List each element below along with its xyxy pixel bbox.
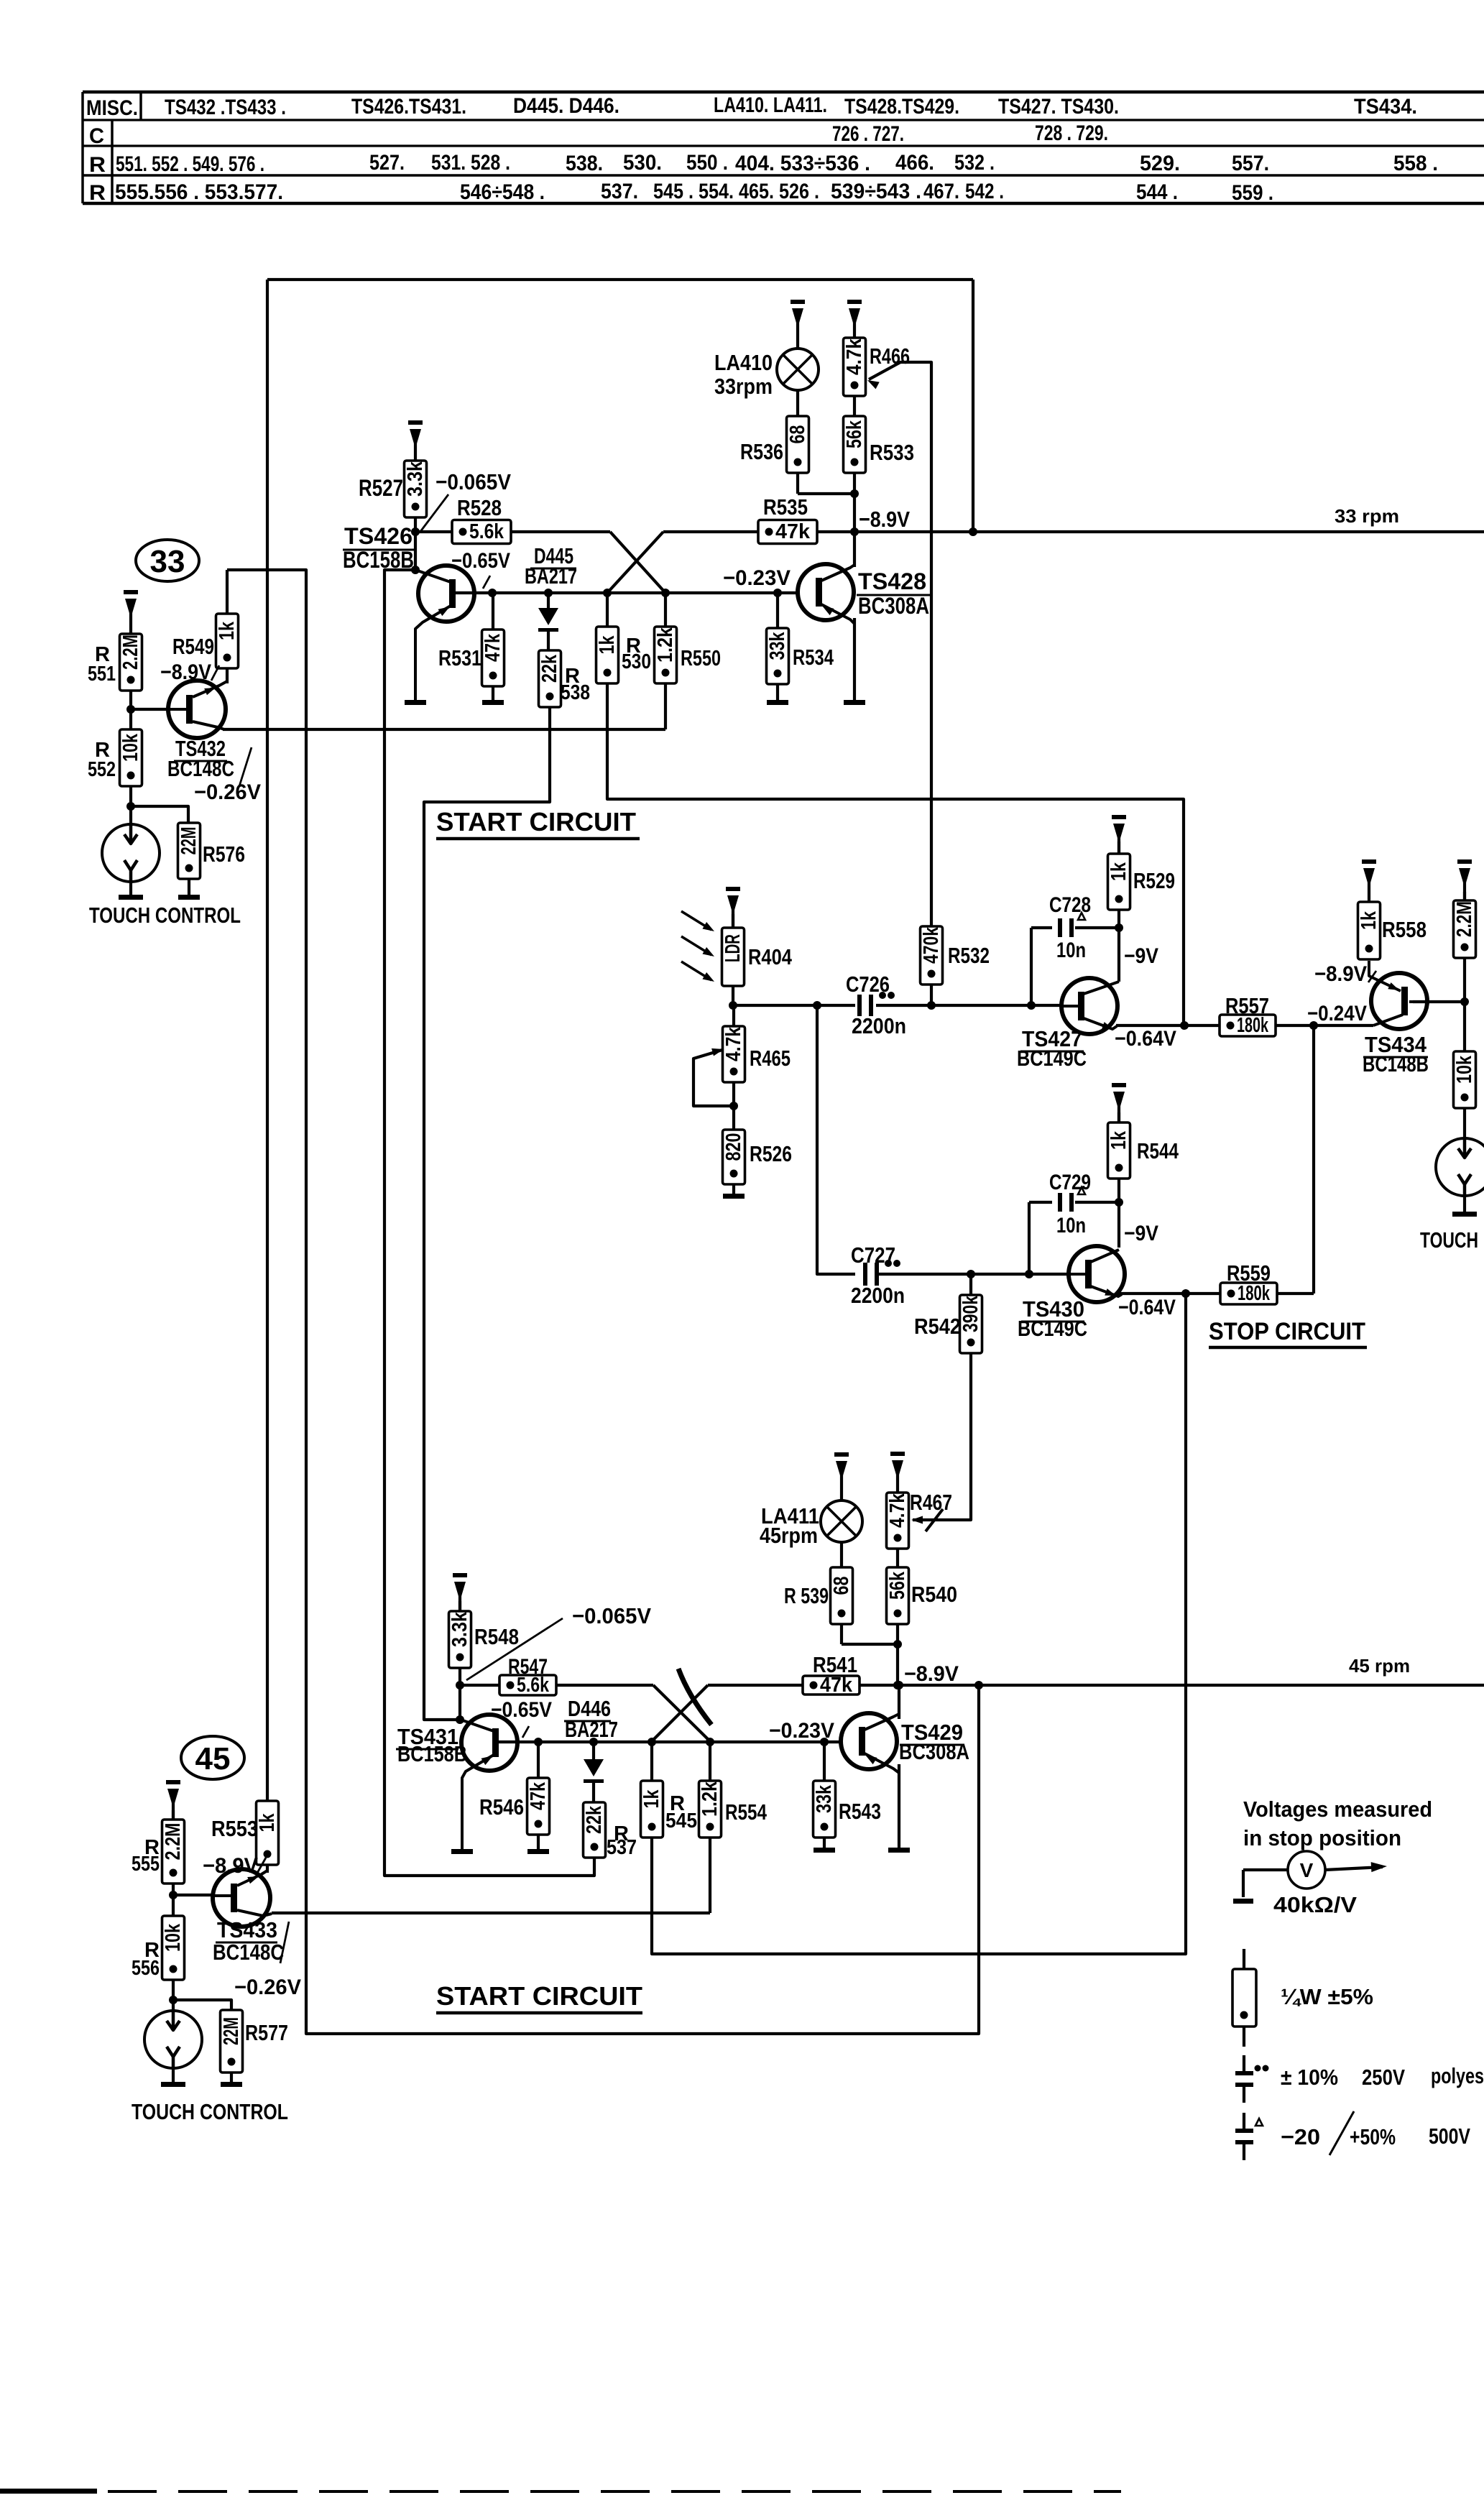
svg-text:3.3k: 3.3k	[404, 461, 427, 497]
svg-text:555: 555	[132, 1853, 160, 1876]
svg-text:BA217: BA217	[525, 563, 577, 589]
svg-text:−8.9V: −8.9V	[904, 1662, 959, 1686]
svg-text:R550: R550	[681, 645, 721, 670]
svg-text:1.2k: 1.2k	[699, 1781, 722, 1817]
svg-text:−9V: −9V	[1124, 944, 1158, 968]
svg-text:1k: 1k	[256, 1813, 279, 1832]
svg-text:R: R	[89, 153, 106, 177]
svg-text:BC148C: BC148C	[213, 1940, 284, 1965]
svg-text:BA217: BA217	[565, 1717, 618, 1742]
svg-text:2200n: 2200n	[851, 1283, 905, 1308]
svg-text:−0.23V: −0.23V	[769, 1719, 834, 1743]
svg-text:C: C	[89, 124, 104, 148]
svg-text:R533: R533	[870, 440, 914, 465]
svg-text:2.2M: 2.2M	[162, 1823, 185, 1861]
svg-text:45: 45	[195, 1741, 231, 1776]
svg-text:−0.64V: −0.64V	[1118, 1296, 1176, 1319]
svg-text:−8.9V: −8.9V	[160, 660, 211, 684]
svg-text:in stop position: in stop position	[1243, 1825, 1401, 1850]
svg-text:BC148B: BC148B	[1363, 1051, 1429, 1076]
svg-text:−0.26V: −0.26V	[194, 780, 261, 804]
svg-text:500V: 500V	[1429, 2124, 1470, 2149]
svg-text:BC149C: BC149C	[1017, 1046, 1087, 1071]
svg-text:5.6k: 5.6k	[469, 520, 504, 543]
svg-text:R554: R554	[725, 1799, 768, 1825]
svg-text:R404: R404	[748, 944, 793, 969]
svg-text:10n: 10n	[1056, 939, 1086, 962]
svg-text:556: 556	[132, 1957, 160, 1980]
svg-text:TOUCH CONTROL: TOUCH CONTROL	[89, 903, 241, 928]
svg-text:1k: 1k	[640, 1789, 663, 1809]
svg-text:530.: 530.	[623, 151, 662, 175]
svg-text:68: 68	[786, 425, 809, 444]
svg-text:TS428: TS428	[858, 568, 926, 594]
svg-text:¼W ±5%: ¼W ±5%	[1281, 1984, 1373, 2009]
svg-text:538.: 538.	[566, 152, 603, 175]
svg-text:4.7k: 4.7k	[722, 1026, 745, 1061]
svg-text:33k: 33k	[813, 1784, 836, 1813]
svg-text:550 .: 550 .	[686, 151, 728, 175]
svg-text:−0.64V: −0.64V	[1115, 1027, 1176, 1051]
svg-text:538: 538	[561, 681, 590, 704]
svg-text:542 .: 542 .	[965, 180, 1004, 203]
svg-text:551: 551	[88, 663, 116, 686]
svg-text:555.556 . 553.577.: 555.556 . 553.577.	[115, 180, 283, 204]
svg-text:10k: 10k	[119, 733, 142, 762]
svg-text:45 rpm: 45 rpm	[1349, 1655, 1410, 1677]
svg-text:TS432 .TS433 .: TS432 .TS433 .	[165, 96, 286, 119]
svg-text:−0.65V: −0.65V	[451, 549, 510, 573]
svg-text:TS427. TS430.: TS427. TS430.	[998, 95, 1119, 119]
svg-text:+50%: +50%	[1350, 2124, 1396, 2149]
svg-text:2.2M: 2.2M	[119, 635, 142, 670]
svg-text:−0.23V: −0.23V	[723, 566, 791, 590]
svg-text:R535: R535	[763, 494, 808, 520]
svg-text:467.: 467.	[923, 180, 959, 203]
svg-text:545: 545	[665, 1809, 697, 1832]
svg-text:R466: R466	[870, 344, 910, 369]
svg-text:START CIRCUIT: START CIRCUIT	[436, 1981, 642, 2011]
svg-text:726 . 727.: 726 . 727.	[832, 122, 904, 146]
svg-text:1k: 1k	[1107, 862, 1130, 881]
svg-text:68: 68	[830, 1577, 853, 1595]
svg-text:250V: 250V	[1362, 2065, 1405, 2090]
svg-text:539÷543 .: 539÷543 .	[831, 180, 921, 203]
svg-text:R548: R548	[474, 1624, 519, 1649]
svg-text:± 10%: ± 10%	[1281, 2065, 1338, 2090]
svg-text:D445. D446.: D445. D446.	[513, 94, 619, 118]
svg-text:BC149C: BC149C	[1018, 1316, 1087, 1341]
svg-text:470k: 470k	[920, 926, 943, 964]
svg-text:47k: 47k	[527, 1781, 550, 1810]
svg-text:22M: 22M	[178, 827, 201, 855]
svg-text:47k: 47k	[775, 520, 811, 543]
svg-text:4.7k: 4.7k	[886, 1493, 909, 1528]
svg-text:−0.26V: −0.26V	[234, 1975, 301, 1999]
svg-text:R465: R465	[750, 1046, 791, 1071]
svg-text:R534: R534	[793, 645, 834, 670]
svg-text:10n: 10n	[1056, 1214, 1086, 1237]
svg-text:−0.24V: −0.24V	[1307, 1002, 1367, 1025]
svg-text:546÷548 .: 546÷548 .	[460, 180, 545, 204]
svg-text:466.: 466.	[895, 151, 934, 175]
svg-text:R543: R543	[839, 1799, 881, 1824]
svg-text:527.: 527.	[369, 151, 405, 175]
svg-text:3.3k: 3.3k	[448, 1611, 471, 1647]
svg-text:1k: 1k	[1107, 1130, 1130, 1150]
svg-text:R: R	[89, 181, 106, 205]
svg-text:−20: −20	[1281, 2124, 1320, 2149]
svg-text:R531: R531	[438, 645, 481, 670]
svg-text:−0.65V: −0.65V	[491, 1698, 552, 1722]
svg-text:V: V	[1300, 1859, 1314, 1881]
svg-text:R577: R577	[245, 2020, 288, 2045]
svg-text:22M: 22M	[220, 2017, 243, 2045]
svg-text:TS426: TS426	[344, 523, 413, 549]
svg-text:47k: 47k	[481, 633, 504, 662]
svg-text:559 .: 559 .	[1232, 181, 1273, 205]
svg-text:56k: 56k	[843, 420, 866, 448]
svg-text:22k: 22k	[583, 1805, 606, 1834]
svg-text:R557: R557	[1225, 993, 1269, 1018]
svg-text:R576: R576	[203, 842, 245, 867]
svg-text:33: 33	[150, 544, 185, 579]
svg-text:R553: R553	[211, 1816, 258, 1841]
svg-text:537: 537	[607, 1836, 637, 1859]
svg-text:2.2M: 2.2M	[1453, 901, 1476, 937]
svg-text:545 .: 545 .	[653, 180, 693, 203]
svg-text:−8.9V: −8.9V	[859, 507, 910, 532]
svg-text:10k: 10k	[162, 1923, 185, 1952]
svg-text:BC308A: BC308A	[899, 1739, 969, 1764]
svg-text:R540: R540	[911, 1582, 957, 1607]
svg-text:C726: C726	[846, 972, 890, 997]
svg-text:820: 820	[722, 1133, 745, 1161]
svg-text:1k: 1k	[1358, 910, 1381, 930]
svg-text:4.7k: 4.7k	[843, 338, 866, 375]
svg-text:552: 552	[88, 758, 116, 781]
svg-text:22k: 22k	[538, 654, 561, 683]
svg-text:R467: R467	[910, 1490, 952, 1515]
svg-text:1k: 1k	[216, 621, 239, 640]
svg-text:R542: R542	[914, 1314, 961, 1339]
svg-text:R541: R541	[813, 1652, 857, 1677]
svg-text:530: 530	[622, 650, 651, 673]
svg-text:532 .: 532 .	[954, 151, 995, 175]
svg-text:−9V: −9V	[1124, 1222, 1158, 1245]
svg-text:R547: R547	[508, 1655, 548, 1679]
svg-text:−0.065V: −0.065V	[572, 1603, 651, 1628]
svg-text:R558: R558	[1382, 917, 1427, 942]
svg-text:MISC.: MISC.	[86, 96, 138, 120]
svg-text:TS433: TS433	[217, 1917, 277, 1942]
svg-text:551. 552 . 549. 576 .: 551. 552 . 549. 576 .	[116, 152, 264, 176]
svg-text:TOUCH: TOUCH	[1420, 1227, 1478, 1253]
svg-text:33rpm: 33rpm	[714, 374, 773, 399]
svg-text:554. 465. 526 .: 554. 465. 526 .	[699, 180, 819, 203]
svg-text:TS426.TS431.: TS426.TS431.	[351, 95, 466, 119]
svg-text:R529: R529	[1133, 868, 1175, 893]
svg-text:polyes: polyes	[1431, 2063, 1484, 2088]
svg-text:56k: 56k	[886, 1571, 909, 1600]
svg-text:2200n: 2200n	[852, 1013, 906, 1038]
svg-text:529.: 529.	[1140, 152, 1180, 175]
svg-text:BC308A: BC308A	[858, 593, 929, 619]
svg-text:558 .: 558 .	[1393, 152, 1438, 175]
svg-text:33k: 33k	[766, 632, 789, 660]
svg-text:START CIRCUIT: START CIRCUIT	[436, 807, 636, 836]
svg-text:33 rpm: 33 rpm	[1335, 505, 1399, 527]
svg-text:R549: R549	[172, 634, 214, 659]
svg-text:1.2k: 1.2k	[654, 627, 677, 663]
svg-text:TOUCH CONTROL: TOUCH CONTROL	[132, 2099, 288, 2124]
svg-text:BC158B: BC158B	[397, 1741, 467, 1766]
svg-text:TS428.TS429.: TS428.TS429.	[844, 95, 959, 119]
svg-text:R559: R559	[1227, 1260, 1271, 1286]
svg-text:537.: 537.	[601, 180, 638, 203]
svg-text:LDR: LDR	[722, 934, 745, 962]
svg-text:R527: R527	[359, 475, 403, 501]
svg-text:390k: 390k	[959, 1295, 982, 1332]
svg-text:40kΩ/V: 40kΩ/V	[1273, 1892, 1357, 1917]
svg-text:1k: 1k	[596, 635, 619, 655]
svg-text:R532: R532	[948, 943, 990, 968]
svg-text:544 .: 544 .	[1136, 180, 1178, 204]
svg-text:45rpm: 45rpm	[760, 1523, 818, 1548]
svg-text:C727: C727	[851, 1243, 895, 1268]
svg-text:LA410: LA410	[714, 350, 773, 375]
svg-text:728 . 729.: 728 . 729.	[1035, 121, 1108, 145]
svg-text:C729: C729	[1049, 1171, 1091, 1194]
svg-text:Voltages measured: Voltages measured	[1243, 1797, 1432, 1822]
svg-text:LA410. LA411.: LA410. LA411.	[714, 93, 827, 117]
svg-text:−8.9V: −8.9V	[1314, 962, 1367, 986]
svg-text:R536: R536	[740, 439, 783, 464]
svg-text:404. 533÷536 .: 404. 533÷536 .	[735, 152, 870, 175]
svg-text:−8.9V: −8.9V	[203, 1854, 258, 1878]
svg-text:557.: 557.	[1232, 152, 1269, 175]
svg-text:−0.065V: −0.065V	[435, 469, 511, 494]
svg-text:STOP CIRCUIT: STOP CIRCUIT	[1209, 1318, 1365, 1345]
svg-text:C728: C728	[1049, 893, 1091, 917]
svg-text:R526: R526	[750, 1141, 792, 1166]
svg-text:R 539: R 539	[784, 1583, 829, 1608]
svg-text:10k: 10k	[1453, 1055, 1476, 1084]
svg-text:531. 528 .: 531. 528 .	[431, 151, 510, 175]
svg-text:BC148C: BC148C	[167, 756, 234, 781]
svg-text:TS434.: TS434.	[1354, 95, 1417, 119]
svg-text:BC158B: BC158B	[343, 547, 414, 573]
svg-text:R528: R528	[457, 495, 502, 520]
svg-text:R544: R544	[1137, 1138, 1179, 1163]
svg-text:R546: R546	[479, 1794, 524, 1820]
